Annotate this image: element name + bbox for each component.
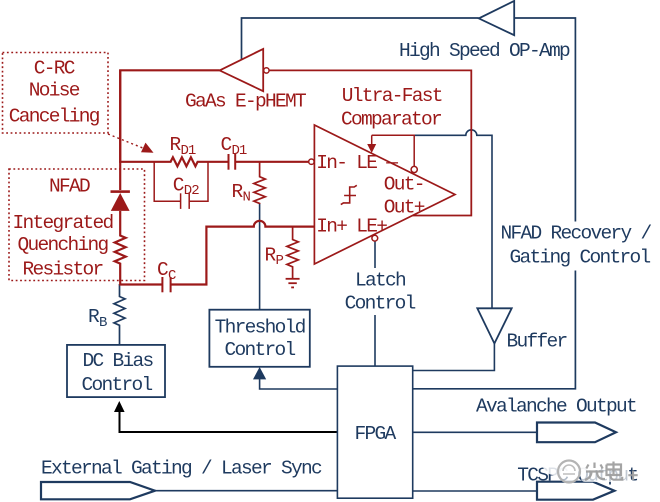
comparator LE+ bubble bbox=[372, 235, 378, 241]
wire: FPGA to TCSPC Output bbox=[413, 490, 537, 492]
dashed pointer arrow from C-RC box to node bbox=[108, 134, 154, 153]
connector: TCSPC Output bbox=[517, 465, 637, 500]
svg-text:High Speed OP-Amp: High Speed OP-Amp bbox=[399, 40, 570, 62]
box: DC Bias Control bbox=[67, 345, 165, 397]
svg-text:Resistor: Resistor bbox=[22, 259, 102, 281]
svg-text:DC Bias: DC Bias bbox=[82, 350, 153, 372]
svg-text:P: P bbox=[276, 253, 284, 269]
resistor RB bias (teal) bbox=[114, 284, 125, 345]
labels RD1 CD1 bbox=[170, 134, 247, 159]
svg-text:D1: D1 bbox=[232, 143, 247, 159]
svg-text:In- LE —: In- LE — bbox=[316, 152, 398, 174]
wire: Out- to LE- latch feedback with arrow bbox=[367, 135, 414, 166]
svg-text:Control: Control bbox=[224, 339, 295, 361]
svg-text:Noise: Noise bbox=[29, 80, 80, 102]
svg-text:C: C bbox=[157, 259, 168, 281]
label Latch Control bbox=[345, 269, 416, 314]
resistor RP with ground bbox=[287, 227, 298, 279]
wire+arrow: FPGA to Threshold Control bbox=[253, 367, 337, 389]
svg-text:Buffer: Buffer bbox=[507, 331, 567, 353]
svg-text:B: B bbox=[99, 315, 107, 331]
diode NFAD with integrated quenching resistor bbox=[115, 70, 126, 286]
annotation box: NFAD Integrated Quenching Resistor (dotted) bbox=[9, 169, 145, 281]
capacitor CD2 branch (parallel with RD1) bbox=[154, 162, 208, 209]
diode cathode bar bbox=[111, 190, 130, 193]
wire: top feedback from OP-Amp output to GaAs gate bbox=[242, 18, 479, 60]
svg-text:Quenching: Quenching bbox=[17, 234, 108, 256]
label NFAD Recovery / Gating Control bbox=[500, 223, 651, 269]
wire+arrow: FPGA to DC Bias Control (black) bbox=[114, 401, 337, 432]
capacitor CC bbox=[162, 277, 170, 292]
svg-text:Threshold: Threshold bbox=[215, 317, 305, 339]
wire: latch control LE+ to FPGA bbox=[374, 241, 376, 366]
svg-text:Gating Control: Gating Control bbox=[509, 246, 650, 268]
label CC bbox=[157, 259, 176, 284]
svg-text:GaAs E-pHEMT: GaAs E-pHEMT bbox=[185, 91, 306, 113]
svg-text:FPGA: FPGA bbox=[354, 423, 396, 445]
label RB bbox=[88, 306, 107, 331]
svg-text:Canceling: Canceling bbox=[9, 106, 100, 128]
hysteresis symbol bbox=[341, 185, 357, 204]
label RP bbox=[265, 244, 284, 269]
connector: Avalanche Output bbox=[476, 395, 636, 442]
transistor GaAs E-pHEMT inverter bbox=[185, 49, 306, 113]
ground bbox=[286, 279, 300, 288]
svg-text:Avalanche Output: Avalanche Output bbox=[476, 395, 636, 417]
wire: NFAD cathode node up and to GaAs output tip bbox=[120, 70, 219, 162]
svg-text:Comparator: Comparator bbox=[341, 108, 441, 130]
diode triangle bbox=[111, 193, 130, 211]
svg-text:C-RC: C-RC bbox=[34, 58, 75, 80]
wire: threshold node down to Threshold Control bbox=[259, 203, 261, 310]
svg-text:Ultra-Fast: Ultra-Fast bbox=[342, 85, 442, 107]
label RN bbox=[232, 181, 251, 206]
svg-text:Control: Control bbox=[81, 374, 152, 396]
capacitor CD1 bbox=[229, 154, 236, 170]
main wire: NFAD node to comparator In- with RD1 and CD1 bbox=[119, 157, 309, 166]
box: Threshold Control bbox=[209, 310, 309, 367]
svg-text:D1: D1 bbox=[181, 143, 196, 159]
op-amp U3 High Speed OP-Amp bbox=[399, 1, 570, 62]
wire: FPGA to Avalanche Output bbox=[413, 431, 537, 433]
svg-text:C: C bbox=[168, 268, 176, 284]
comparator Out- bubble bbox=[411, 166, 417, 172]
comparator In- bubble bbox=[309, 159, 314, 164]
svg-text:External Gating / Laser Sync: External Gating / Laser Sync bbox=[41, 457, 322, 479]
svg-text:Control: Control bbox=[345, 293, 416, 315]
box: FPGA bbox=[337, 366, 412, 498]
wire: comparator Out-/LE- node to buffer (teal, hops red wire) bbox=[414, 130, 492, 308]
wire: buffer output to FPGA bbox=[413, 344, 494, 371]
wire: OP-Amp input from FPGA gating line bbox=[413, 18, 575, 389]
connector: External Gating / Laser Sync input bbox=[41, 457, 337, 499]
svg-text:C: C bbox=[221, 134, 232, 156]
svg-text:Latch: Latch bbox=[355, 269, 405, 291]
label CD2 bbox=[173, 174, 199, 199]
svg-text:Out-: Out- bbox=[384, 173, 424, 195]
svg-text:C: C bbox=[173, 174, 184, 196]
svg-text:Out+: Out+ bbox=[384, 197, 425, 219]
label Ultra-Fast Comparator bbox=[341, 85, 442, 130]
svg-text:NFAD: NFAD bbox=[49, 175, 90, 197]
wire: GaAs input from comparator Out+ (right loop) bbox=[269, 70, 471, 215]
watermark text guang-dian-plus bbox=[585, 462, 638, 481]
svg-text:In+ LE+: In+ LE+ bbox=[316, 216, 387, 238]
svg-text:Integrated: Integrated bbox=[12, 212, 112, 234]
annotation box: C-RC Noise Canceling (dotted) bbox=[3, 53, 109, 134]
comparator pin labels bbox=[316, 152, 425, 237]
watermark logo circle bbox=[543, 456, 629, 483]
buffer U4 bbox=[477, 308, 566, 352]
svg-text:N: N bbox=[243, 190, 251, 206]
svg-text:NFAD Recovery /: NFAD Recovery / bbox=[500, 223, 651, 245]
wire: In+ line from CC node with hop over threshold line bbox=[120, 221, 314, 285]
resistor RN bbox=[254, 162, 265, 204]
comparator U2 Ultra-Fast bbox=[314, 125, 455, 264]
svg-text:D2: D2 bbox=[184, 183, 199, 199]
